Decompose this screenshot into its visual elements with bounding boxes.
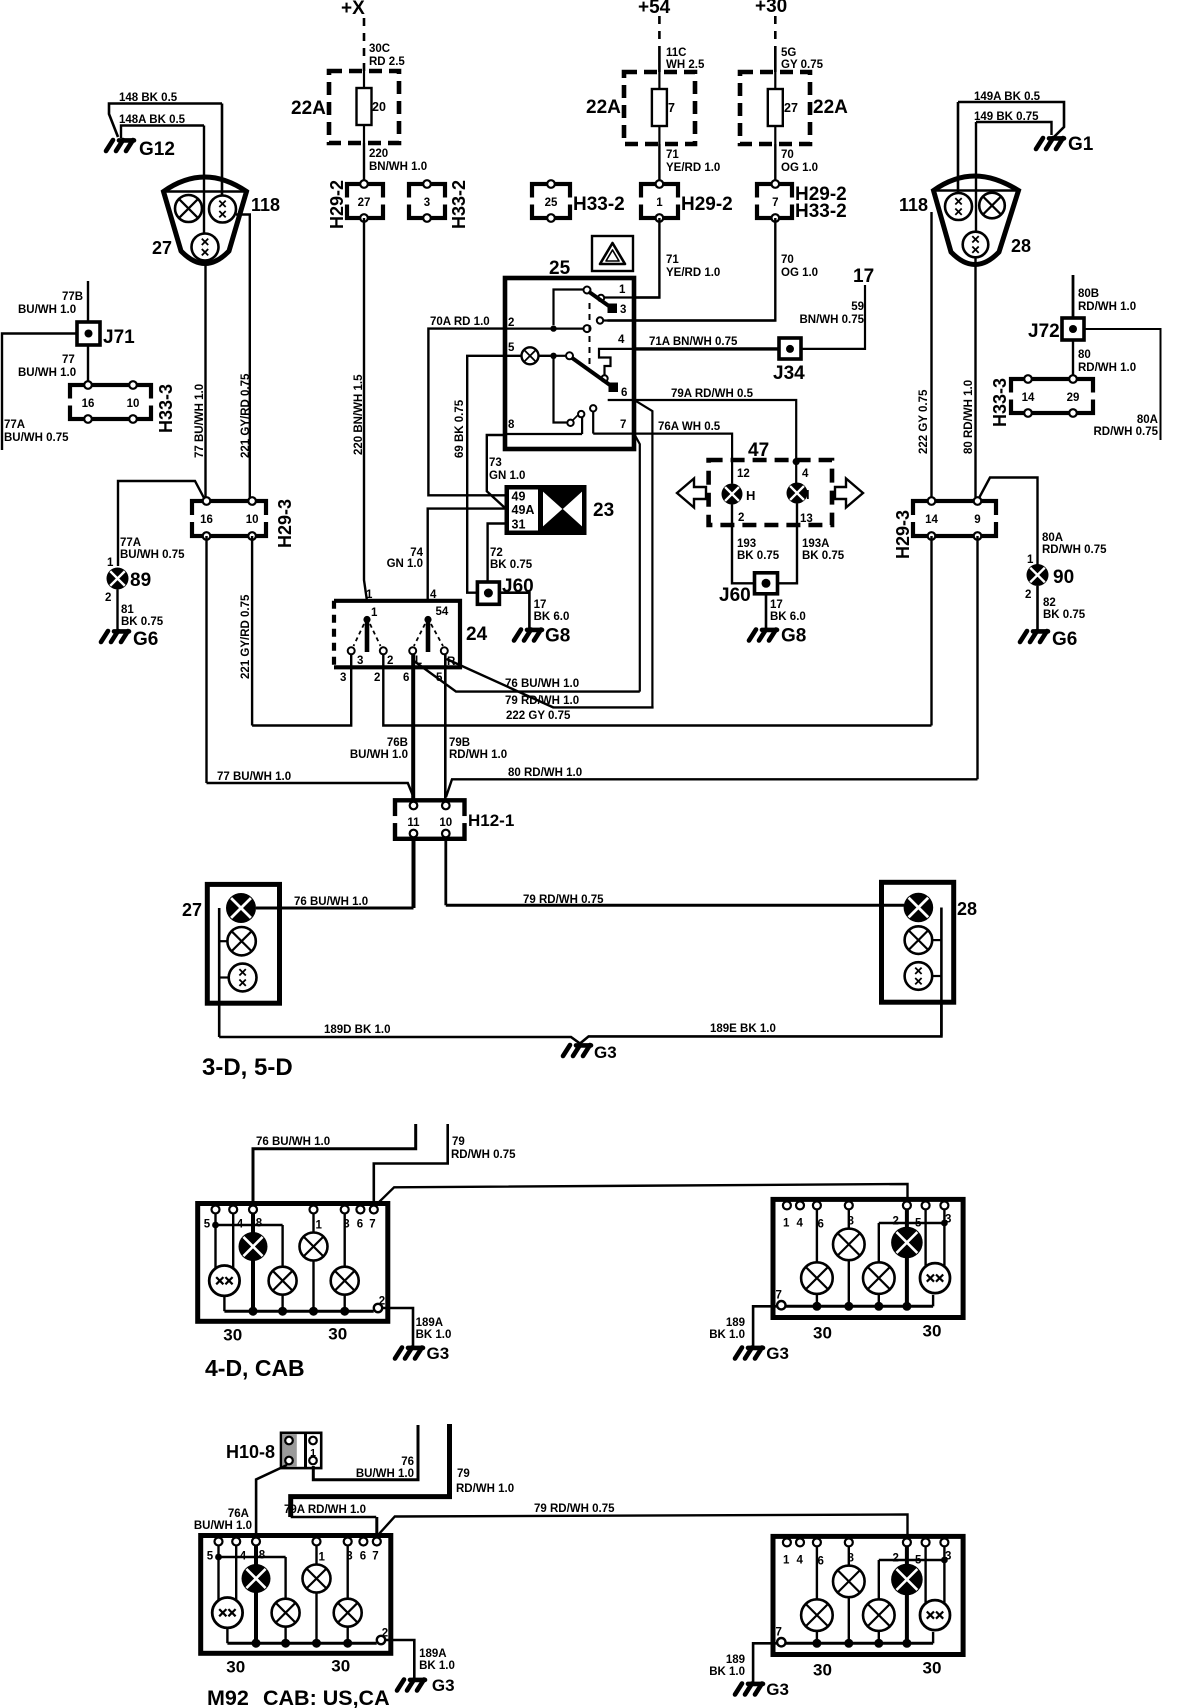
svg-text:59: 59 [851,301,864,313]
wire 148A into lamp [203,126,205,235]
svg-text:118: 118 [251,195,280,215]
wire 80A RD/WH stub right [1084,329,1161,440]
wire 76 BU/WH 1.0 branch [414,661,640,692]
wire 80 RD/WH from lamp 28 [974,258,976,498]
svg-text:10: 10 [246,514,259,526]
wire 70 OG to hazard switch [608,218,776,321]
wire 193 BK 0.75 [732,505,755,584]
ground G1 [1036,138,1064,149]
switch 25 blade lower [572,358,613,387]
pilot lamp H [722,484,743,505]
wire 77A BU/WH 0.75 to lamp 89 [118,481,204,566]
svg-text:77A: 77A [120,537,141,549]
svg-text:77A: 77A [4,419,25,431]
svg-text:16: 16 [200,514,213,526]
svg-text:4: 4 [802,468,809,480]
svg-text:5: 5 [207,1551,214,1563]
svg-text:28: 28 [1011,236,1031,256]
cab right lamp X pin8 [833,1229,865,1261]
svg-text:6: 6 [818,1218,824,1230]
lamp 27 front-left lower xx [192,234,219,261]
svg-text:54: 54 [436,606,449,618]
wire 79 to rear right [444,839,447,906]
svg-text:7: 7 [776,1289,782,1301]
svg-text:BU/WH 1.0: BU/WH 1.0 [18,367,76,379]
svg-text:H12-1: H12-1 [468,811,514,830]
svg-text:70A RD 1.0: 70A RD 1.0 [430,316,490,328]
svg-text:76 BU/WH 1.0: 76 BU/WH 1.0 [294,896,368,908]
wire dashed from +X [363,18,366,71]
svg-text:H33-3: H33-3 [990,378,1010,427]
svg-text:RD/WH 1.0: RD/WH 1.0 [1078,362,1136,374]
cab left lamp top X [300,1233,328,1261]
svg-text:6: 6 [818,1555,824,1567]
svg-text:221 GY/RD 0.75: 221 GY/RD 0.75 [240,594,252,679]
cab right pin2 feed [905,1546,909,1643]
wire 80 RD/WH to H33-3 [1072,340,1074,379]
svg-text:RD/WH 1.0: RD/WH 1.0 [449,749,507,761]
wire 77 BU/WH to H33-3 [87,345,89,385]
svg-text:29: 29 [1067,392,1080,404]
svg-text:1: 1 [619,284,626,296]
svg-text:79: 79 [457,1468,470,1480]
svg-text:6: 6 [403,672,409,684]
wire 72 BK 0.75 to J60 [488,524,505,583]
wire 79 RD/WH 1.0 branch [447,659,654,707]
svg-text:30: 30 [923,1321,942,1340]
wire 71 YE/RD to hazard switch pin 1 [634,218,659,298]
svg-text:BK 1.0: BK 1.0 [709,1666,745,1678]
lamp cluster 118 front-right outline [934,176,1019,265]
svg-text:80: 80 [1078,349,1091,361]
svg-text:H33-3: H33-3 [156,384,176,433]
wire 220 BN/WH 1.5 down to switch 24 pin 1 [364,218,367,601]
svg-text:7: 7 [369,1219,375,1231]
wire 73 GN 1.0 from switch pin 8 [487,435,505,508]
svg-text:30C: 30C [369,43,390,55]
svg-text:69 BK 0.75: 69 BK 0.75 [454,399,466,458]
svg-text:30: 30 [223,1326,242,1345]
switch 25 contact circle top [584,287,591,294]
svg-text:222 GY 0.75: 222 GY 0.75 [506,710,571,722]
wire 148 BK 0.5 to ground G12 [109,104,222,138]
svg-text:30: 30 [923,1658,942,1677]
wire 71 YE/RD 1.0 upper [658,144,660,184]
switch 25 contact on blade [601,375,607,381]
svg-text:BK 1.0: BK 1.0 [416,1329,452,1341]
pilot lamp I [787,483,808,504]
ground G3 M92 right [735,1684,763,1695]
svg-text:76A WH 0.5: 76A WH 0.5 [658,421,721,433]
switch 25 contact circle pin1 row [598,295,604,301]
wire 70A RD 1.0 to flasher 49 [428,329,505,496]
svg-text:193A: 193A [802,538,830,550]
cab right pin3 wiring [943,1209,945,1223]
svg-text:G1: G1 [1068,134,1094,155]
svg-text:13: 13 [800,513,813,525]
connector H12-1 pins 11 10 [391,800,469,839]
switch 25 pivot circle lower [566,352,573,359]
cab right pin8 wire [848,1209,850,1228]
svg-text:77B: 77B [62,291,83,303]
wire 149A BK 0.5 to ground G1 [958,102,1064,137]
cab right pin5 wire [924,1209,926,1266]
wire 81 BK 0.75 to ground G6 left [116,590,118,630]
lamp 28 front-right turn signal [979,193,1005,219]
wire 148 into lamp [221,104,224,197]
turn signal switch 24 box [334,601,460,668]
rear lamp cluster 27 box [207,884,279,1003]
switch 25 mechanical link dashed [589,303,591,371]
cab left pin1 wire [312,1214,314,1233]
cab left lamp XX [209,1266,239,1296]
wire 79 stub 4-D [374,1124,448,1204]
cab left pin3 wire [347,1546,349,1599]
svg-text:3: 3 [424,197,430,209]
wire 80A RD/WH 0.75 to lamp 90 [979,478,1038,565]
svg-text:10: 10 [127,398,140,410]
lamp 28 front-right parking xx [945,193,972,220]
svg-text:H29-3: H29-3 [275,499,295,548]
svg-text:2: 2 [387,655,393,667]
connector H29-3 pins 16 10 [188,501,270,536]
lamp 27 front-left turn signal [175,195,202,222]
wire 76 BU/WH branch down [635,435,640,691]
svg-text:2: 2 [1025,589,1031,601]
svg-text:22A: 22A [813,97,848,118]
svg-text:22A: 22A [586,97,621,118]
svg-text:BK 0.75: BK 0.75 [737,550,780,562]
svg-text:CAB: US,CA: CAB: US,CA [263,1686,390,1708]
fuse 22A no.20 [329,71,399,143]
svg-text:70: 70 [781,149,794,161]
svg-text:J71: J71 [103,327,135,348]
svg-text:30: 30 [331,1657,350,1676]
junction J72 [1062,318,1084,340]
svg-text:BU/WH 0.75: BU/WH 0.75 [4,432,69,444]
connector H29-2 pin 27 [343,184,387,218]
svg-text:7: 7 [620,419,626,431]
lamp 28 front-right lower xx [963,232,989,258]
rear 27 internal bus [218,908,221,1037]
svg-text:6: 6 [360,1551,366,1563]
junction J60 left [477,582,499,604]
wire 189A BK 1.0 M92 left [385,1640,414,1678]
svg-text:79A RD/WH 1.0: 79A RD/WH 1.0 [284,1504,366,1516]
rear 27 turn lamp [226,893,256,923]
wire 17 BK 6.0 to ground G8 right [765,594,768,628]
connector H33-2 pin 3 [405,184,449,218]
cab right pin6 wire [816,1209,818,1264]
svg-text:RD/WH 1.0: RD/WH 1.0 [1078,301,1136,313]
svg-text:73: 73 [489,457,502,469]
svg-text:H10-8: H10-8 [226,1442,275,1462]
pilot lamp unit 47 box [709,460,832,525]
svg-text:11C: 11C [666,47,686,59]
svg-text:8: 8 [259,1550,266,1562]
svg-text:6: 6 [621,387,627,399]
cab left pin4 wire [235,1546,237,1601]
cab left pin4 wire [232,1214,234,1269]
junction J71 [77,322,100,345]
svg-text:11: 11 [407,817,420,829]
cab right lamp turn filled [891,1227,923,1259]
rear 27 lamp xx [229,964,257,992]
connector H33-3 pins 16 10 [66,385,155,419]
svg-text:G3: G3 [427,1344,450,1363]
cab left lamp XX [212,1598,242,1628]
cab right ground bus [781,1305,933,1308]
svg-text:1: 1 [783,1554,790,1566]
wire 80B RD/WH stub [1072,275,1075,318]
svg-text:27: 27 [358,197,371,209]
svg-text:BU/WH 1.0: BU/WH 1.0 [194,1520,252,1532]
wire 148A BK 0.5 to ground G12 [121,126,204,139]
svg-text:4: 4 [797,1217,804,1229]
svg-text:1: 1 [656,197,663,209]
svg-text:3: 3 [357,655,363,667]
cab left lamp turn filled [242,1564,271,1593]
wire 76A WH 0.5 to pilot lamp [634,434,732,484]
svg-text:2: 2 [893,1215,899,1227]
cab right lamp X pin6 [801,1262,833,1294]
hazard symbol box [592,236,633,271]
svg-text:3: 3 [340,672,346,684]
svg-text:77: 77 [62,354,75,366]
rear 28 internal bus [940,908,943,1037]
svg-text:90: 90 [1053,567,1074,588]
svg-text:OG 1.0: OG 1.0 [781,267,818,279]
svg-text:27: 27 [152,238,172,258]
arrow left [677,479,706,508]
cab right pin2 feed [905,1209,909,1306]
svg-text:89: 89 [130,570,151,591]
svg-text:BK 0.75: BK 0.75 [1043,609,1086,621]
hazard switch 25 box [505,278,634,449]
cab left lamp mid X [272,1599,300,1627]
svg-text:J72: J72 [1028,321,1060,342]
svg-text:30: 30 [328,1325,347,1344]
lamp 27 front-left parking xx [209,196,236,223]
cab left lamp box [198,1204,388,1322]
wire 189D BK 1.0 [219,1002,941,1043]
cab left pin1 wire [315,1546,317,1565]
cab left pin8 feed [254,1546,258,1644]
cab left pin5 wiring [214,1214,216,1226]
svg-text:RD 2.5: RD 2.5 [369,56,405,68]
wire 79 RD/WH 0.75 rear right [446,904,904,907]
svg-text:BK 6.0: BK 6.0 [770,611,806,623]
svg-text:220 BN/WH 1.5: 220 BN/WH 1.5 [353,374,365,455]
svg-text:BU/WH 1.0: BU/WH 1.0 [350,749,408,761]
svg-text:30: 30 [813,1323,832,1342]
cab right lamp turn filled [891,1564,923,1596]
svg-text:80 RD/WH 1.0: 80 RD/WH 1.0 [963,380,975,454]
connector H29-2 pin 1 [637,184,682,218]
svg-text:16: 16 [82,398,95,410]
svg-text:27: 27 [182,900,202,920]
svg-text:17: 17 [534,599,547,611]
svg-text:2: 2 [105,592,111,604]
wire 76 stub M92 [313,1425,418,1480]
svg-text:28: 28 [957,899,977,919]
svg-text:71: 71 [666,254,679,266]
lamp cluster 118 front-left outline [164,177,247,264]
svg-text:H29-2: H29-2 [327,180,347,229]
svg-text:1: 1 [316,1220,323,1232]
svg-text:80B: 80B [1078,288,1099,300]
wire 69 BK 0.75 to J60 [467,356,505,593]
svg-text:79B: 79B [449,737,470,749]
svg-text:RD/WH 0.75: RD/WH 0.75 [1042,544,1107,556]
wire 189 BK 1.0 M92 right [753,1643,777,1682]
svg-text:1: 1 [310,1447,316,1459]
cab left ground bus [226,1628,228,1643]
svg-text:+54: +54 [638,0,671,18]
wire 149A into lamp [957,102,960,193]
svg-text:4: 4 [797,1554,804,1566]
ground G3 M92 left [397,1680,425,1691]
svg-text:YE/RD 1.0: YE/RD 1.0 [666,267,720,279]
svg-text:6: 6 [357,1219,363,1231]
svg-text:WH 2.5: WH 2.5 [666,59,705,71]
cab left lamp right X [331,1267,359,1295]
svg-text:22A: 22A [291,98,326,119]
fuse 22A no.7 [624,72,695,144]
svg-text:2: 2 [893,1552,899,1564]
cab left pin5 wiring [217,1546,219,1558]
svg-text:J34: J34 [773,363,805,384]
wire 221 below H29-3 [251,536,253,726]
svg-text:H33-2: H33-2 [449,180,469,229]
wire 77A BU/WH stub left [2,334,77,451]
svg-text:G3: G3 [594,1043,617,1062]
wire 76 BU/WH 1.0 rear left [256,907,414,910]
cab left lamp box [201,1536,391,1654]
svg-text:BK 0.75: BK 0.75 [802,550,845,562]
svg-text:BK 0.75: BK 0.75 [490,559,533,571]
svg-text:G6: G6 [133,629,158,650]
svg-text:RD/WH 0.75: RD/WH 0.75 [451,1149,516,1161]
svg-text:7: 7 [668,101,675,115]
svg-text:17: 17 [770,599,783,611]
cab right lamp XX [920,1263,950,1293]
svg-text:4: 4 [430,589,437,601]
svg-text:47: 47 [748,440,769,461]
svg-text:H33-2: H33-2 [795,201,847,222]
wire 79 RD/WH branch down [635,400,652,707]
cab right ground bus [781,1642,933,1645]
cab right lamp X pin8 [833,1566,865,1598]
cab right lamp box [773,1536,963,1654]
connector H33-3 pins 14 29 [1007,379,1097,413]
svg-text:7: 7 [776,1626,782,1638]
cab right lamp box [773,1199,963,1317]
cab right pin6 wire [816,1546,818,1601]
svg-text:BK 6.0: BK 6.0 [534,611,570,623]
rear 28 lamp X [905,926,933,954]
wire 76 stub 4-D [253,1124,416,1205]
svg-text:7: 7 [372,1551,378,1563]
wire 71A BN/WH 0.75 to J34 [634,347,779,350]
svg-text:149A BK 0.5: 149A BK 0.5 [974,91,1041,103]
svg-text:189A: 189A [419,1648,447,1660]
svg-text:82: 82 [1043,597,1056,609]
svg-text:221 GY/RD 0.75: 221 GY/RD 0.75 [240,373,252,458]
svg-text:G8: G8 [545,626,570,647]
svg-text:148A BK 0.5: 148A BK 0.5 [119,114,186,126]
svg-text:RD/WH 0.75: RD/WH 0.75 [1093,426,1158,438]
cab right lamp XX [920,1600,950,1630]
cab left lamp right X [334,1599,362,1627]
junction J34 [779,338,801,359]
wire 79A RD/WH 1.0 long [291,1516,377,1518]
svg-text:76 BU/WH 1.0: 76 BU/WH 1.0 [256,1136,330,1148]
svg-text:9: 9 [974,514,980,526]
svg-text:76A: 76A [228,1508,249,1520]
svg-text:YE/RD 1.0: YE/RD 1.0 [666,162,720,174]
cab left pin3 wire [344,1214,346,1267]
cab left ground bus [223,1296,225,1311]
svg-text:8: 8 [508,419,515,431]
svg-text:+X: +X [341,0,365,19]
svg-text:H29-3: H29-3 [893,510,913,559]
svg-text:2: 2 [738,512,744,524]
wire dashed from +54 [658,16,661,46]
wire 222 GY from lamp cluster 28 [930,212,932,497]
svg-text:J60: J60 [719,585,751,606]
svg-text:49A: 49A [512,503,535,517]
fuse 22A no.27 [740,72,810,144]
wire 79A into pin 7 [375,1517,378,1538]
svg-text:80A: 80A [1042,532,1063,544]
svg-text:G3: G3 [766,1680,789,1699]
svg-text:24: 24 [466,624,488,645]
svg-text:30: 30 [813,1660,832,1679]
svg-text:H29-2: H29-2 [681,194,733,215]
svg-text:30: 30 [226,1658,245,1677]
svg-text:3: 3 [620,304,626,316]
wire 79 RD/WH 0.75 long 4-D [375,1184,908,1206]
cab left lamp top X [303,1565,331,1593]
wire 221 GY/RD from lamp 27 [236,215,253,503]
cab right pin8 wire [848,1546,850,1565]
svg-text:49: 49 [512,490,526,504]
svg-text:23: 23 [593,500,614,521]
cab left lamp turn filled [239,1232,268,1261]
svg-text:80 RD/WH 1.0: 80 RD/WH 1.0 [508,767,582,779]
svg-text:79A RD/WH 0.5: 79A RD/WH 0.5 [671,388,754,400]
cab left pin8 feed [251,1214,255,1312]
svg-text:G3: G3 [432,1676,455,1695]
svg-text:2: 2 [374,672,380,684]
svg-text:71A BN/WH 0.75: 71A BN/WH 0.75 [649,336,738,348]
arrow right [835,479,863,508]
svg-text:189E BK 1.0: 189E BK 1.0 [710,1023,776,1035]
wire 76A BU/WH 1.0 [256,1465,287,1546]
wire 149 BK 0.75 to ground G1 [976,122,1052,135]
svg-text:79 RD/WH 0.75: 79 RD/WH 0.75 [523,894,604,906]
svg-text:189D BK 1.0: 189D BK 1.0 [324,1024,390,1036]
wire 17 BK 6.0 to ground G8 left [500,593,530,628]
junction J60 right [755,573,778,594]
svg-text:14: 14 [1022,392,1035,404]
wire 222 below H29-3 right [930,536,932,726]
svg-text:189: 189 [726,1654,745,1666]
svg-text:1: 1 [783,1217,790,1229]
wire 189A BK 1.0 4-D left [382,1308,413,1346]
svg-text:BU/WH 1.0: BU/WH 1.0 [356,1468,414,1480]
